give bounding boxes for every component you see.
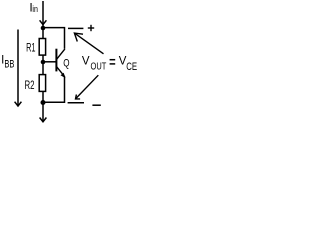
arrow to top reference	[74, 33, 103, 54]
resistor R2	[39, 62, 45, 103]
wire output arrow down	[40, 103, 47, 122]
wire base	[43, 61, 56, 63]
node base junction	[41, 60, 46, 65]
arrow to bottom reference	[76, 75, 99, 99]
wire Iin input with arrowhead	[40, 1, 47, 26]
svg-text:V: V	[82, 55, 90, 67]
svg-text:in: in	[32, 4, 38, 15]
wire top node to collector	[43, 28, 65, 49]
wire emitter to bottom node	[43, 77, 65, 103]
label IBB	[1, 54, 14, 70]
bottom reference dash	[68, 102, 84, 104]
svg-text:Q: Q	[63, 58, 70, 70]
resistor R1	[39, 28, 45, 62]
label Iin	[29, 0, 38, 15]
svg-text:CE: CE	[126, 61, 137, 73]
label VOUT = VCE	[82, 55, 137, 73]
node top junction	[41, 26, 46, 31]
svg-text:BB: BB	[4, 58, 14, 70]
node bottom junction	[41, 100, 46, 105]
svg-text:R2: R2	[25, 80, 35, 92]
plus sign	[88, 25, 94, 31]
minus sign	[92, 104, 100, 106]
svg-text:R1: R1	[26, 43, 35, 55]
arrow IBB	[15, 30, 22, 107]
svg-text:OUT: OUT	[91, 61, 107, 73]
top reference dash	[68, 27, 83, 29]
transistor Q (NPN)	[56, 49, 65, 78]
